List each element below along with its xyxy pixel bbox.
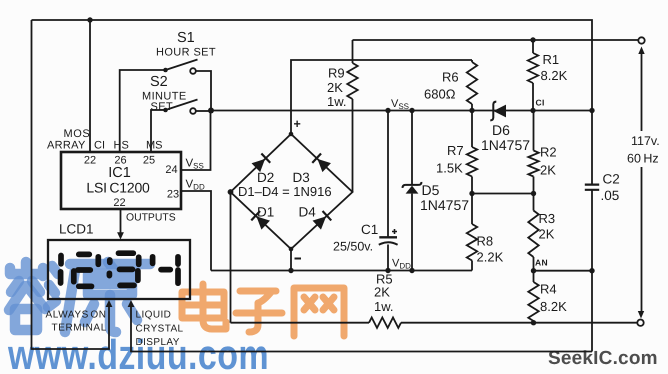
svg-text:2.2K: 2.2K [477,250,504,265]
wire top AC line [353,39,639,41]
lcd LCD1 display 12:34 [48,222,190,300]
svg-text:D2: D2 [257,170,274,185]
resistor R3 2K [528,194,555,271]
wire link R7 bottom to R2 bottom [472,193,534,195]
svg-text:R7: R7 [447,143,464,158]
svg-text:SET: SET [151,101,174,113]
wire CI net: top bus from IC pin 22 across top to CI line [32,20,593,111]
label always on terminal [46,310,107,334]
svg-text:2K: 2K [540,163,556,178]
svg-text:AN: AN [535,258,548,268]
svg-text:117v.: 117v. [631,134,660,148]
svg-text:680Ω: 680Ω [424,87,456,102]
svg-text:2K: 2K [539,227,555,242]
switch S2 MINUTE SET [142,74,198,114]
svg-text:D6: D6 [492,122,510,138]
resistor R1 8.2K [528,40,568,111]
wire bridge bottom to VDD rail [290,249,292,271]
node D5 top on VSS line [409,108,414,113]
switch S1 HOUR SET [156,30,216,74]
wire bridge left vertex down to R5 line [230,192,232,323]
svg-text:8.2K: 8.2K [541,68,568,83]
svg-text:D5: D5 [422,182,440,198]
resistor R5 2K 1w in bottom AC line [231,272,638,328]
node CI line right end [589,108,594,113]
svg-text:R3: R3 [539,211,556,226]
svg-text:MOS: MOS [64,128,91,140]
svg-text:R6: R6 [442,70,459,85]
svg-text:C2: C2 [603,172,620,187]
terminal AC top [638,37,644,43]
resistor R8 2.2K [467,194,504,271]
svg-text:2K: 2K [374,285,390,300]
resistor R4 8.2K [528,271,567,323]
svg-text:R8: R8 [477,234,494,249]
diode D2 [251,154,270,173]
wire AN line to C2 column [534,270,593,272]
svg-text:D3: D3 [293,170,310,185]
svg-text:CRYSTAL: CRYSTAL [136,324,184,335]
diode D4 [312,211,331,230]
svg-text:60 Hz: 60 Hz [627,152,659,166]
node R4 bottom junction [531,320,536,325]
resistor R2 2K [528,111,556,194]
svg-text:1N4757: 1N4757 [481,137,530,153]
wire CI pin 22 drop to IC [89,20,91,152]
svg-text:24: 24 [165,164,177,176]
wire OUTPUTS arrow from IC to LCD [117,210,176,240]
svg-text:CI: CI [94,140,105,152]
wire always-on terminal net: left frame down and up to LCD [32,20,113,349]
wire S2 output right [196,110,211,112]
wire IC pin 24 VSS to rail [181,111,211,171]
label 117v 60Hz AC source with measurement arrows [627,47,660,319]
diode D3 [312,154,331,173]
svg-text:25: 25 [143,155,155,167]
svg-text:R1: R1 [543,52,560,67]
svg-text:R2: R2 [540,145,557,160]
svg-text:MS: MS [146,140,163,152]
node bridge top vertex + [289,117,301,136]
ic U1 IC1 LSI C1200 [61,152,181,209]
resistor R7 1.5K [436,111,477,194]
svg-text:CI: CI [536,98,545,108]
node VSS junction at switches [208,108,214,114]
capacitor C2 .05 [585,111,620,352]
svg-text:HS: HS [114,140,129,152]
wire S2 to MS pin [151,110,166,152]
node R6/R7 junction on VSS line [469,108,474,113]
svg-text:1w.: 1w. [374,299,394,314]
svg-text:R4: R4 [540,282,557,297]
resistor R9 2K 1w [327,40,358,192]
wire LCD backplane to bottom bus (liquid crystal display terminal) [128,300,592,352]
node R1 top junction [530,37,535,42]
svg-text:1w.: 1w. [327,94,347,109]
wire S1 output to VSS junction [196,71,211,111]
svg-text:D4: D4 [299,205,317,220]
svg-text:25/50v.: 25/50v. [333,240,373,254]
node AN left [531,268,536,273]
svg-text:TERMINAL: TERMINAL [52,323,107,334]
node bridge bottom vertex - [289,247,301,259]
svg-text:2K: 2K [327,80,343,95]
svg-text:ARRAY: ARRAY [47,140,86,152]
svg-text:DISPLAY: DISPLAY [136,337,180,348]
wire bridge + up and across to R6 [291,60,472,134]
svg-text:.05: .05 [601,188,620,203]
svg-text:LIQUID: LIQUID [136,310,172,321]
node bridge bottom on VDD rail [288,268,293,273]
svg-text:22: 22 [113,197,125,209]
svg-text:S2: S2 [150,74,168,90]
node link right [531,191,536,196]
svg-text:HOUR SET: HOUR SET [156,47,216,59]
label liquid crystal display [136,310,184,349]
svg-text:LCD1: LCD1 [59,222,94,237]
label IC top pin names CI HS MS, MOS ARRAY [47,128,163,152]
capacitor C1 25/50v electrolytic [333,111,398,271]
zener D6 1N4757 [481,102,530,153]
lcd digits 12:34 [61,253,178,286]
wire VDD rail [211,270,472,272]
svg-text:D1–D4 = 1N916: D1–D4 = 1N916 [238,184,332,199]
resistor R6 680ohm [424,60,477,111]
svg-text:OUTPUTS: OUTPUTS [126,213,176,224]
svg-text:C1: C1 [361,222,378,237]
svg-text:22: 22 [84,155,96,167]
node bridge left vertex [228,189,234,195]
svg-text:1N4757: 1N4757 [420,197,469,213]
svg-text:+: + [294,117,301,131]
node link left [469,191,474,196]
wire IC pin 23 VDD down to VDD rail [181,191,211,271]
svg-text:23: 23 [167,189,179,201]
node C1 bottom on VDD rail [385,268,390,273]
svg-text:1.5K: 1.5K [436,161,463,176]
label bridge diodes [238,170,332,220]
svg-text:S1: S1 [177,30,195,46]
node junction top of CI pin drop [87,17,92,22]
diode D1 [251,211,270,230]
wire S1 to HS pin [120,70,166,152]
diode bridge frame D1-D4 [231,134,353,249]
node CI line R1/R2 junction [530,108,535,113]
svg-text:D1: D1 [257,205,274,220]
wire VSS / CI horizontal line [211,110,592,112]
terminal AC bottom [637,320,643,326]
svg-text:R9: R9 [328,66,345,81]
svg-text:LSI C1200: LSI C1200 [86,180,150,196]
svg-text:8.2K: 8.2K [540,299,567,314]
node D5 bottom on VDD rail [409,268,414,273]
zener D5 1N4757 [403,111,470,271]
node C1 top on VSS line [385,108,390,113]
node AN right at C2 [589,268,594,273]
svg-text:ALWAYS ON: ALWAYS ON [46,310,107,321]
